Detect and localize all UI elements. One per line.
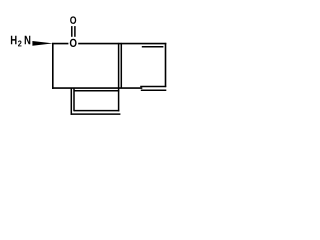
C=O double bond line 2: [74, 26, 76, 37]
ring double bond long line: [118, 43, 120, 112]
bottom ring: left outer vertical: [70, 88, 72, 115]
right ring: bottom upper line: [140, 86, 166, 88]
long bottom bond: [52, 87, 142, 89]
vertical bond from stereocenter down: [52, 43, 54, 89]
bottom ring: left inner vertical: [73, 88, 75, 112]
C=O double bond line 1: [71, 26, 73, 37]
amine label H2N: [11, 36, 17, 45]
bottom ring: bottom outer line: [71, 113, 121, 115]
bottom ring: bottom inner line: [74, 110, 119, 112]
bond stereocenter to ester O: [52, 43, 68, 45]
wedge bond from N to stereocenter: [32, 41, 53, 46]
right ring: right edge vertical: [165, 43, 167, 87]
bottom ring: top inner line: [74, 90, 119, 92]
bond O to ring / long top bond: [78, 43, 166, 45]
right ring: inner top line: [142, 46, 164, 48]
carbonyl O label: [70, 16, 76, 23]
ester O label: [70, 39, 77, 47]
ring double bond short line: [120, 43, 122, 88]
right ring: bottom lower line: [141, 89, 167, 91]
